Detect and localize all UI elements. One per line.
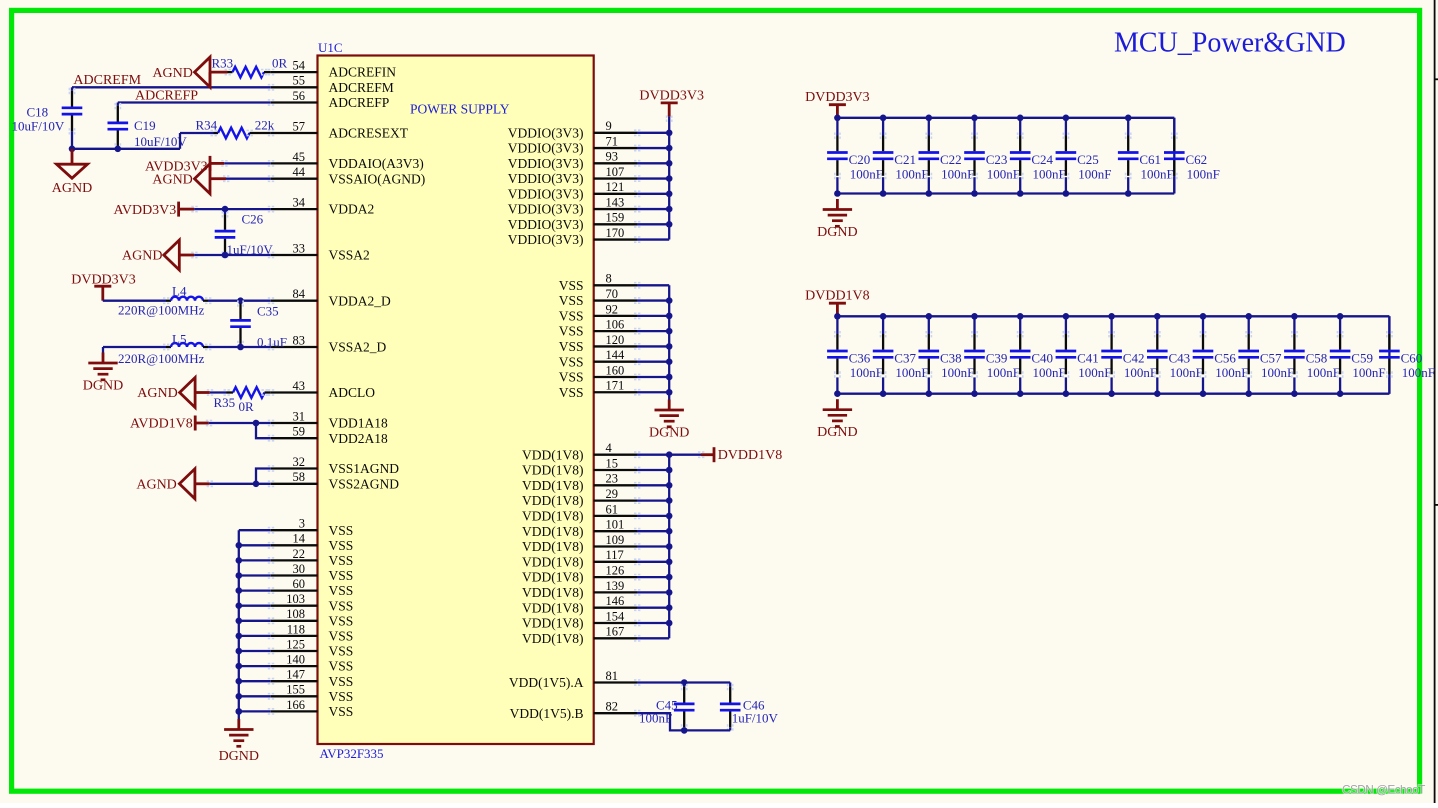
- wire VDDIO pin to bus: [637, 147, 669, 149]
- wire VSS pin to bus: [637, 391, 669, 393]
- svg-text:VDDIO(3V3): VDDIO(3V3): [508, 156, 584, 171]
- svg-text:101: 101: [606, 518, 625, 532]
- wire C23 bottom stub: [973, 177, 975, 193]
- junction C59 top: [1337, 313, 1344, 320]
- junction C24 bottom: [1017, 190, 1024, 197]
- wire C43 bottom stub: [1156, 377, 1158, 393]
- svg-text:30: 30: [293, 562, 306, 576]
- svg-text:VSS: VSS: [559, 370, 584, 385]
- wire VDD(1V8) pin to bus: [637, 469, 669, 471]
- wire C39 top stub: [973, 316, 975, 334]
- wire VSS pin to bus: [637, 330, 669, 332]
- snap marks at stem/pin transitions: [225, 69, 232, 71]
- capacitor C39: [973, 334, 975, 350]
- junction C35 top: [237, 297, 244, 304]
- svg-text:126: 126: [606, 564, 625, 578]
- wire AVDD3V3 to pin 45: [210, 162, 224, 165]
- pin 93 (VDDIO(3V3)) right stub: [594, 162, 637, 164]
- power port AGND stem (pin 54): [209, 72, 212, 87]
- wire VSS bus to pin row y=530.2: [239, 529, 271, 531]
- power port DGND: [102, 353, 105, 364]
- svg-text:AGND: AGND: [137, 386, 177, 401]
- svg-text:VSS: VSS: [329, 538, 354, 553]
- wire C61 bottom stub: [1127, 177, 1129, 193]
- junction C38 bottom: [926, 390, 933, 397]
- pin 33 (VSSA2) left stub: [271, 254, 318, 256]
- svg-text:VDDIO(3V3): VDDIO(3V3): [508, 125, 584, 140]
- power port AGND: [57, 164, 88, 178]
- junction C25 bottom: [1063, 190, 1070, 197]
- wire VDD(1V8) pin to bus: [637, 454, 669, 456]
- junction C57 top: [1245, 313, 1252, 320]
- svg-text:34: 34: [293, 196, 306, 210]
- svg-text:VDDIO(3V3): VDDIO(3V3): [508, 171, 584, 186]
- svg-text:100nF: 100nF: [1033, 365, 1066, 380]
- wire VSS bus to pin row y=620.8: [239, 620, 271, 622]
- wire bottom rail to C46: [684, 729, 730, 731]
- wire C22 top stub: [928, 118, 930, 136]
- pin 143 (VDDIO(3V3)) right stub: [594, 208, 637, 210]
- junction C45 top: [681, 679, 688, 686]
- capacitor C35: [239, 303, 241, 319]
- wire DVDD3V3 to L4: [103, 300, 166, 302]
- svg-text:117: 117: [606, 548, 624, 562]
- power port DGND: [668, 400, 671, 411]
- pin 4 (VDD(1V8)) right stub: [594, 454, 637, 456]
- svg-text:60: 60: [293, 577, 306, 591]
- pin 159 (VDDIO(3V3)) right stub: [594, 223, 637, 225]
- capacitor C37: [882, 334, 884, 350]
- svg-text:159: 159: [606, 211, 625, 225]
- wire L4 to pin 84: [203, 300, 208, 302]
- wire AGND stem to R33: [210, 71, 228, 74]
- pin 83 (VSSA2_D) left stub: [271, 346, 318, 348]
- svg-text:100nF: 100nF: [1261, 365, 1294, 380]
- wire pin 82 elbow to bottom rail: [637, 713, 684, 730]
- svg-text:70: 70: [606, 287, 619, 301]
- junction C37 bottom: [880, 390, 887, 397]
- wire VSS vertical bus: [238, 530, 240, 719]
- svg-text:DVDD1V8: DVDD1V8: [805, 288, 870, 303]
- svg-text:C23: C23: [986, 152, 1008, 167]
- capacitor C43: [1156, 334, 1158, 350]
- junction C26 top: [222, 206, 229, 213]
- junction C26 bottom: [222, 252, 229, 259]
- wire C46 top leg riser: [729, 683, 731, 687]
- svg-text:57: 57: [293, 119, 306, 133]
- svg-text:VSS: VSS: [329, 583, 354, 598]
- svg-text:C36: C36: [849, 351, 871, 366]
- svg-text:4: 4: [606, 441, 613, 455]
- svg-text:R33: R33: [212, 56, 234, 71]
- wire VSS bus to pin row y=696.3: [239, 695, 271, 697]
- pin 84 (VDDA2_D) left stub: [271, 300, 318, 302]
- IC U1C body: [318, 56, 594, 745]
- svg-text:171: 171: [606, 379, 625, 393]
- wire VDD(1V8) pin to bus: [637, 561, 669, 563]
- svg-text:167: 167: [606, 625, 625, 639]
- svg-text:C58: C58: [1306, 351, 1328, 366]
- svg-text:56: 56: [293, 89, 306, 103]
- svg-text:71: 71: [606, 134, 619, 148]
- svg-text:ADCLO: ADCLO: [329, 385, 376, 400]
- power port DVDD1V8: [713, 447, 716, 462]
- wire bank bottom rail: [837, 393, 1389, 395]
- svg-text:C60: C60: [1401, 351, 1423, 366]
- wire bank top rail: [837, 117, 1174, 119]
- pin 160 (VSS) right stub: [594, 376, 637, 378]
- wire VSS bus to pin row y=575.5: [239, 574, 271, 576]
- svg-text:100nF: 100nF: [1402, 365, 1435, 380]
- power port AGND stem below C18: [71, 149, 74, 164]
- pin 146 (VDD(1V8)) right stub: [594, 607, 637, 609]
- svg-text:ADCREFM: ADCREFM: [329, 80, 394, 95]
- wire VSS pin to bus: [637, 284, 669, 286]
- wire C36 bottom stub: [836, 377, 838, 393]
- power port AGND: [195, 164, 211, 194]
- wire C21 top stub: [882, 118, 884, 136]
- svg-text:103: 103: [286, 592, 305, 606]
- svg-text:100nF: 100nF: [941, 166, 974, 181]
- wire C18 top leg: [71, 87, 73, 91]
- junction C22 top: [926, 115, 933, 122]
- wire C35 top leg: [239, 301, 241, 304]
- wire VDDIO pin to bus: [637, 208, 669, 210]
- pin 171 (VSS) right stub: [594, 391, 637, 393]
- svg-text:147: 147: [286, 668, 305, 682]
- junction C61 top: [1125, 115, 1132, 122]
- power port DVDD3V3: [661, 102, 678, 105]
- svg-text:VSS: VSS: [559, 354, 584, 369]
- wire C41 bottom stub: [1065, 377, 1067, 393]
- svg-text:C24: C24: [1031, 152, 1053, 167]
- power port DGND: [836, 399, 839, 410]
- wire VDD(1V8) pin to bus: [637, 515, 669, 517]
- svg-text:100nF: 100nF: [895, 365, 928, 380]
- wire C21 bottom stub: [882, 177, 884, 193]
- wire C35 bottom leg: [239, 343, 241, 347]
- wire VDDIO pin to bus: [637, 132, 669, 134]
- svg-text:U1C: U1C: [318, 40, 343, 55]
- svg-text:29: 29: [606, 487, 619, 501]
- wire C37 top stub: [882, 316, 884, 334]
- svg-text:VDD1A18: VDD1A18: [329, 416, 388, 431]
- pin 3 (VSS) left stub: [271, 529, 318, 531]
- pin 106 (VSS) right stub: [594, 330, 637, 332]
- wire VDD(1V8) pin to bus: [637, 607, 669, 609]
- svg-text:C25: C25: [1077, 152, 1099, 167]
- svg-text:22k: 22k: [255, 117, 275, 132]
- svg-text:DVDD3V3: DVDD3V3: [639, 89, 704, 104]
- wire VDDIO pin to bus: [637, 238, 669, 240]
- wire C26 bottom leg: [224, 253, 226, 256]
- wire AVDD1V8 to pin 31: [195, 422, 209, 425]
- pin 117 (VDD(1V8)) right stub: [594, 561, 637, 563]
- svg-text:AGND: AGND: [152, 173, 192, 188]
- wire C59 bottom stub: [1339, 377, 1341, 393]
- svg-text:C18: C18: [27, 105, 49, 120]
- power port AVDD3V3: [177, 202, 180, 217]
- junction C23 top: [971, 115, 978, 122]
- pin 30 (VSS) left stub: [271, 574, 318, 576]
- sheet edge tick mark lower: [1435, 504, 1438, 506]
- svg-text:100nF: 100nF: [1141, 166, 1174, 181]
- pin 31 (VDD1A18) left stub: [271, 422, 318, 424]
- svg-text:100nF: 100nF: [1215, 365, 1248, 380]
- pin 92 (VSS) right stub: [594, 315, 637, 317]
- svg-text:1uF/10V: 1uF/10V: [732, 711, 779, 726]
- svg-text:33: 33: [293, 241, 306, 255]
- junction C24 top: [1017, 115, 1024, 122]
- wire C40 bottom stub: [1019, 377, 1021, 393]
- svg-text:C22: C22: [940, 152, 962, 167]
- svg-text:R34: R34: [196, 117, 218, 132]
- pin 15 (VDD(1V8)) right stub: [594, 469, 637, 471]
- wire VDD(1V8) pin to bus: [637, 530, 669, 532]
- pin 14 (VSS) left stub: [271, 544, 318, 546]
- wire C61 top stub: [1127, 118, 1129, 136]
- svg-text:146: 146: [606, 594, 625, 608]
- power port DVDD3V3: [94, 285, 111, 288]
- svg-text:VDD(1V5).B: VDD(1V5).B: [510, 706, 584, 721]
- svg-text:9: 9: [606, 119, 612, 133]
- svg-text:160: 160: [606, 363, 625, 377]
- wire C18 bottom to AGND bus: [71, 131, 73, 149]
- capacitor C41: [1065, 334, 1067, 350]
- pin 140 (VSS) left stub: [271, 665, 318, 667]
- power port DGND: [836, 199, 839, 210]
- power port DVDD3V3: [829, 103, 846, 106]
- wire R34 to pin 57: [250, 132, 271, 134]
- svg-text:VDD(1V8): VDD(1V8): [522, 478, 584, 493]
- junction C45 bottom: [681, 727, 688, 734]
- wire AGND to pin 33: [179, 254, 194, 257]
- junction C40 bottom: [1017, 390, 1024, 397]
- svg-text:VSS: VSS: [559, 339, 584, 354]
- svg-text:C35: C35: [257, 304, 279, 319]
- pin 60 (VSS) left stub: [271, 589, 318, 591]
- wire VSS bus to pin row y=560.4: [239, 559, 271, 561]
- svg-text:ADCRESEXT: ADCRESEXT: [329, 126, 409, 141]
- svg-text:VDD(1V8): VDD(1V8): [522, 463, 584, 478]
- wire AGND to pin 58: [195, 482, 210, 485]
- wire to R34: [214, 132, 219, 134]
- wire AGND to R35: [195, 391, 210, 394]
- svg-text:VDD(1V8): VDD(1V8): [522, 570, 584, 585]
- svg-text:121: 121: [606, 180, 625, 194]
- svg-text:VDDIO(3V3): VDDIO(3V3): [508, 202, 584, 217]
- svg-text:VDD(1V8): VDD(1V8): [522, 524, 584, 539]
- wire VDD(1V8) pin to bus: [637, 622, 669, 624]
- svg-text:C61: C61: [1139, 152, 1161, 167]
- wire R33 to pin 54: [264, 71, 271, 73]
- power port AVDD1V8: [194, 416, 197, 431]
- pin 58 (VSS2AGND) left stub: [271, 483, 318, 485]
- wire C42 top stub: [1110, 316, 1112, 334]
- wire VSS bus to pin row y=590.6: [239, 589, 271, 591]
- wire VSS bus to pin row y=681.2: [239, 680, 271, 682]
- svg-text:93: 93: [606, 150, 619, 164]
- junction C56 top: [1200, 313, 1207, 320]
- svg-text:125: 125: [286, 637, 305, 651]
- pin 56 (ADCREFP) left stub: [271, 101, 318, 103]
- sheet right edge border line: [1434, 0, 1436, 803]
- svg-text:VDDIO(3V3): VDDIO(3V3): [508, 141, 584, 156]
- wire VSS pin to bus: [637, 376, 669, 378]
- wire C58 bottom stub: [1293, 377, 1295, 393]
- svg-text:VSSA2_D: VSSA2_D: [329, 340, 387, 355]
- wire AGND to pin 44: [210, 177, 226, 180]
- junction C21 top: [880, 115, 887, 122]
- inductor L5: [171, 343, 203, 347]
- capacitor C57: [1248, 334, 1250, 350]
- capacitor C19: [117, 106, 119, 122]
- power port AVDD3V3: [209, 156, 212, 171]
- svg-text:81: 81: [606, 669, 619, 683]
- svg-text:VDD(1V8): VDD(1V8): [522, 585, 584, 600]
- svg-text:120: 120: [606, 333, 625, 347]
- wire C25 top stub: [1065, 118, 1067, 136]
- resistor R34: [218, 128, 250, 139]
- wire C23 top stub: [973, 118, 975, 136]
- junction C36 top: [834, 313, 841, 320]
- junction pin31/pin59 branch: [253, 420, 260, 427]
- wire branch up to pin 32: [256, 469, 271, 484]
- svg-text:100nF: 100nF: [1078, 365, 1111, 380]
- svg-text:VDDIO(3V3): VDDIO(3V3): [508, 232, 584, 247]
- svg-text:VDD(1V8): VDD(1V8): [522, 554, 584, 569]
- capacitor C46: [729, 687, 731, 703]
- wire C38 top stub: [928, 316, 930, 334]
- capacitor C18: [71, 91, 73, 107]
- capacitor C62: [1173, 136, 1175, 152]
- svg-text:109: 109: [606, 533, 625, 547]
- pin 57 (ADCRESEXT) left stub: [271, 132, 318, 134]
- svg-text:L4: L4: [172, 283, 187, 298]
- pin 32 (VSS1AGND) left stub: [271, 467, 318, 469]
- svg-text:VSS: VSS: [329, 568, 354, 583]
- svg-text:VSS: VSS: [329, 553, 354, 568]
- capacitor C20: [836, 136, 838, 152]
- capacitor C40: [1019, 334, 1021, 350]
- junction C58 top: [1291, 313, 1298, 320]
- svg-text:100nF: 100nF: [1187, 166, 1220, 181]
- wire ADCREFM net (pin 55): [72, 86, 271, 88]
- capacitor C38: [928, 334, 930, 350]
- wire bank top rail: [837, 315, 1389, 317]
- svg-text:106: 106: [606, 318, 625, 332]
- wire VDDIO pin to bus: [637, 223, 669, 225]
- sheet edge tick mark upper: [1435, 78, 1438, 80]
- svg-text:VSS: VSS: [329, 659, 354, 674]
- svg-text:VDD(1V8): VDD(1V8): [522, 616, 584, 631]
- svg-text:VSS: VSS: [329, 689, 354, 704]
- wire bus to DVDD1V8 port: [669, 454, 701, 456]
- junction C21 bottom: [880, 190, 887, 197]
- svg-text:C57: C57: [1260, 351, 1282, 366]
- svg-text:CSDN @EchooT: CSDN @EchooT: [1342, 783, 1425, 797]
- junction C19: [115, 146, 122, 153]
- svg-text:VSS: VSS: [559, 308, 584, 323]
- svg-text:ADCREFIN: ADCREFIN: [329, 65, 397, 80]
- svg-text:VSS: VSS: [329, 674, 354, 689]
- svg-text:R35: R35: [214, 395, 236, 410]
- svg-text:100nF: 100nF: [1078, 166, 1111, 181]
- pin 118 (VSS) left stub: [271, 635, 318, 637]
- wire AVDD3V3 to pin 34: [179, 208, 195, 211]
- pin 166 (VSS) left stub: [271, 710, 318, 712]
- capacitor C25: [1065, 136, 1067, 152]
- svg-text:84: 84: [293, 287, 306, 301]
- pin 170 (VDDIO(3V3)) right stub: [594, 238, 637, 240]
- svg-text:VSS: VSS: [329, 644, 354, 659]
- junction DVDD1V8 tap: [666, 451, 673, 458]
- pin 155 (VSS) left stub: [271, 695, 318, 697]
- svg-text:C26: C26: [242, 211, 264, 226]
- wire VDD(1V8) pin to bus: [637, 576, 669, 578]
- pin 43 (ADCLO) left stub: [271, 391, 318, 393]
- pin 44 (VSSAIO(AGND)) left stub: [271, 178, 318, 180]
- wire C22 bottom stub: [928, 177, 930, 193]
- wire VSS bus to pin row y=605.7: [239, 605, 271, 607]
- svg-text:154: 154: [606, 609, 626, 623]
- svg-text:C43: C43: [1169, 351, 1191, 366]
- pin 167 (VDD(1V8)) right stub: [594, 637, 637, 639]
- power port AGND: [195, 57, 211, 87]
- svg-text:VSS1AGND: VSS1AGND: [329, 461, 400, 476]
- svg-text:100nF: 100nF: [1307, 365, 1340, 380]
- svg-text:44: 44: [293, 165, 306, 179]
- junction C40 top: [1017, 313, 1024, 320]
- junction C22 bottom: [926, 190, 933, 197]
- svg-text:C39: C39: [986, 351, 1008, 366]
- svg-text:82: 82: [606, 700, 619, 714]
- svg-text:DGND: DGND: [83, 379, 123, 394]
- svg-text:VDD(1V8): VDD(1V8): [522, 631, 584, 646]
- wire C40 top stub: [1019, 316, 1021, 334]
- pin 23 (VDD(1V8)) right stub: [594, 484, 637, 486]
- svg-text:VDDA2_D: VDDA2_D: [329, 293, 391, 308]
- svg-text:VDD(1V8): VDD(1V8): [522, 600, 584, 615]
- svg-text:170: 170: [606, 226, 625, 240]
- wire branch down to pin 59: [256, 423, 271, 438]
- resistor R35: [233, 387, 265, 398]
- capacitor C61: [1127, 136, 1129, 152]
- wire AGND bus riser to R34: [179, 133, 181, 149]
- wire VSS bus to pin row y=635.9: [239, 635, 271, 637]
- svg-text:DGND: DGND: [817, 425, 857, 440]
- wire C58 top stub: [1293, 316, 1295, 334]
- svg-text:22: 22: [293, 547, 306, 561]
- svg-text:VDD(1V5).A: VDD(1V5).A: [509, 675, 584, 690]
- svg-text:VSS: VSS: [559, 293, 584, 308]
- svg-text:C20: C20: [849, 152, 871, 167]
- svg-text:43: 43: [293, 379, 306, 393]
- wire bank right edge: [1173, 118, 1175, 194]
- power port DGND: [237, 719, 240, 730]
- wire R35 to pin 43: [265, 391, 271, 393]
- wire VSS bus to pin row y=666.1: [239, 665, 271, 667]
- wire C24 bottom stub: [1019, 177, 1021, 193]
- svg-text:DVDD1V8: DVDD1V8: [718, 448, 783, 463]
- svg-text:100nF: 100nF: [987, 365, 1020, 380]
- svg-text:VDD2A18: VDD2A18: [329, 431, 388, 446]
- wire C60 bottom stub: [1388, 377, 1390, 393]
- wire C39 bottom stub: [973, 377, 975, 393]
- svg-text:AGND: AGND: [122, 249, 162, 264]
- pin 9 (VDDIO(3V3)) right stub: [594, 132, 637, 134]
- svg-text:108: 108: [286, 607, 305, 621]
